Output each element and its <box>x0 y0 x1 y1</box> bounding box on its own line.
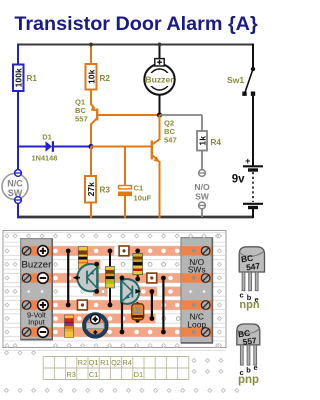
buzzer <box>159 45 161 66</box>
svg-text:R2: R2 <box>100 74 111 83</box>
junction dot top R2 <box>89 43 93 47</box>
wire to R4 <box>160 114 203 116</box>
board row lines <box>3 233 226 351</box>
svg-text:R1: R1 <box>100 358 109 367</box>
BC557 package <box>237 324 260 386</box>
N/O SW terminals <box>199 170 206 177</box>
transistor T1 (flat side right) <box>77 264 97 291</box>
transistor Q2 BC547 <box>151 141 153 160</box>
stripboard outline <box>3 231 226 348</box>
left block +/- terminals <box>38 246 49 257</box>
resistor Ra (10k) r1->r3 <box>79 247 88 269</box>
T2 emitter lead to r7 <box>121 303 123 333</box>
svg-text:+: + <box>245 156 250 166</box>
svg-text:547: 547 <box>164 136 177 145</box>
svg-text:N/O: N/O <box>194 182 210 192</box>
bottom margin diamonds <box>5 351 9 355</box>
white row holes <box>121 263 125 267</box>
capacitor C1 on board <box>83 313 108 338</box>
svg-text:R4: R4 <box>122 358 131 367</box>
svg-text:R3: R3 <box>100 186 111 195</box>
resistor Rb (1k) r1->r3 <box>137 251 139 278</box>
wire link F <box>151 292 153 319</box>
wire left rail <box>17 44 19 66</box>
svg-text:100k: 100k <box>14 68 24 87</box>
svg-text:c: c <box>239 291 243 300</box>
track cuts <box>119 246 129 256</box>
svg-text:R1: R1 <box>27 74 38 83</box>
svg-text:D1: D1 <box>42 133 51 142</box>
wire bottom rail <box>17 216 253 219</box>
svg-text:Sw1: Sw1 <box>227 75 244 85</box>
svg-text:Buzzer: Buzzer <box>21 259 52 270</box>
svg-text:557: 557 <box>75 115 88 124</box>
svg-text:10uF: 10uF <box>134 194 152 203</box>
svg-text:npn: npn <box>239 299 259 311</box>
svg-text:Loop: Loop <box>187 319 206 329</box>
resistor Rc (100k) r1->r5 <box>109 251 111 305</box>
wire link A <box>67 251 69 305</box>
diode D1 1N4148 <box>18 146 46 148</box>
copper strips <box>21 246 115 255</box>
junction dot top buzzer <box>158 43 162 47</box>
BC547 package <box>239 247 264 311</box>
svg-text:R4: R4 <box>211 138 222 147</box>
svg-text:Q1: Q1 <box>89 358 99 367</box>
svg-text:1N4148: 1N4148 <box>32 154 58 163</box>
svg-text:1k: 1k <box>197 136 207 146</box>
resistor Rd (27k) r6->r7 <box>65 315 73 337</box>
parts table <box>43 357 189 380</box>
node junction D1/R3/Q2 <box>88 144 93 149</box>
svg-text:N/C: N/C <box>7 179 23 189</box>
svg-text:SW: SW <box>195 192 210 202</box>
svg-text:10k: 10k <box>86 69 96 84</box>
resistor R1 <box>13 65 24 92</box>
svg-text:9v: 9v <box>232 174 245 186</box>
svg-text:547: 547 <box>245 261 261 273</box>
strip holes <box>53 249 58 254</box>
switch Sw1 <box>252 44 254 70</box>
svg-text:Transistor Door Alarm {A}: Transistor Door Alarm {A} <box>14 13 258 35</box>
svg-text:SWs: SWs <box>188 265 206 275</box>
right block screws <box>192 249 196 253</box>
resistor R4 <box>197 131 207 151</box>
hole diamonds <box>13 234 17 238</box>
left block screws <box>22 247 31 256</box>
wire top rail <box>18 44 253 46</box>
resistor R3 <box>90 147 92 177</box>
svg-text:pnp: pnp <box>238 374 259 386</box>
svg-text:C1: C1 <box>134 184 144 193</box>
transistor T2 (flat side left) <box>121 279 139 304</box>
N/C SW <box>2 174 28 200</box>
diode D1 on board <box>137 302 139 321</box>
svg-text:e: e <box>253 363 257 372</box>
transistor Q1 BC557 <box>90 89 92 105</box>
resistor R2 <box>90 45 92 65</box>
node junction buzzer/Q2/R4 <box>157 112 162 117</box>
svg-text:C1: C1 <box>89 370 98 379</box>
svg-text:Buzzer: Buzzer <box>145 75 174 85</box>
wire link E <box>162 278 164 332</box>
terminal block right (N/O SWs / N/C Loop) <box>181 238 212 343</box>
svg-text:D1: D1 <box>134 370 143 379</box>
svg-text:R3: R3 <box>66 370 75 379</box>
svg-text:Input: Input <box>28 317 44 326</box>
svg-text:SW: SW <box>8 188 23 198</box>
terminal block left (Buzzer / 9-Volt) <box>21 239 53 340</box>
capacitor C1 <box>124 147 126 186</box>
svg-text:27k: 27k <box>86 182 96 197</box>
svg-text:R2: R2 <box>78 358 87 367</box>
svg-text:Q2: Q2 <box>111 358 121 367</box>
